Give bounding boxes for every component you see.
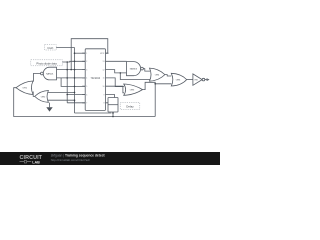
wire OR1 out to bottom bus	[14, 88, 156, 117]
wire pin1	[75, 52, 86, 54]
wire pin9 to delay box	[109, 95, 115, 98]
svg-text:9: 9	[104, 94, 105, 96]
svg-text:10: 10	[103, 86, 105, 88]
wire QD pin6	[67, 94, 85, 96]
svg-text:4: 4	[86, 78, 87, 80]
footer watermark bar	[0, 152, 220, 165]
ground	[46, 103, 52, 112]
svg-text:NAND3: NAND3	[130, 68, 138, 71]
wire OR2 out to OR1 lower input	[33, 92, 35, 97]
gate OR3	[124, 84, 143, 95]
svg-text:13: 13	[103, 61, 105, 63]
wire OR2 lower input	[48, 100, 75, 103]
wire riser from bus	[155, 84, 171, 117]
wire pin12 to NAND3 lower	[109, 70, 127, 73]
wire OR2 upper input	[48, 91, 75, 93]
gate NAND3	[127, 62, 144, 76]
gate INV1	[193, 74, 205, 85]
gate NAND1 (mirrored)	[41, 67, 57, 80]
svg-text:1: 1	[86, 53, 87, 55]
wire QA pin3	[57, 69, 86, 71]
svg-text:OR4: OR4	[155, 75, 160, 77]
svg-text:OR6: OR6	[176, 80, 181, 82]
wire QB pin4	[57, 77, 86, 79]
wire column1 lower	[66, 62, 68, 103]
wire pin7	[67, 102, 85, 104]
svg-text:7: 7	[86, 103, 87, 105]
gate OR2 (mirrored)	[35, 91, 49, 103]
wire top feedback loop	[71, 39, 108, 70]
wire CLK under IC	[75, 112, 112, 114]
wire pin10 to OR3 lower	[109, 86, 125, 93]
svg-text:skfguan | Training sequence de: skfguan | Training sequence detect	[51, 154, 106, 158]
svg-text:CLK: CLK	[47, 46, 54, 50]
svg-text:12: 12	[103, 69, 105, 71]
svg-text:6: 6	[86, 94, 87, 96]
wire output with flag	[205, 79, 208, 81]
wire QC jog to pin5	[61, 78, 85, 86]
wire NAND1 out to OR1	[33, 74, 40, 82]
node Photo diode data label	[31, 60, 63, 66]
node CLK label	[45, 45, 57, 51]
svg-text:LAB: LAB	[32, 160, 40, 164]
wire pin11 to OR3 upper	[109, 78, 125, 87]
wire OR4 out to OR6 upper	[165, 75, 171, 76]
pin stubs left	[82, 53, 85, 103]
wire CLK to column	[56, 47, 74, 49]
svg-text:3: 3	[86, 69, 87, 71]
svg-text:VCC: VCC	[100, 53, 105, 55]
svg-text:Delay: Delay	[126, 105, 134, 109]
svg-text:OR1: OR1	[23, 88, 28, 90]
delay element box	[108, 98, 118, 117]
svg-text:2: 2	[86, 61, 87, 63]
node Delay label	[120, 103, 140, 110]
svg-text:Photo diode data: Photo diode data	[36, 61, 57, 65]
svg-text:OR2: OR2	[41, 96, 46, 98]
gate OR4	[150, 68, 165, 81]
svg-text:NAND1: NAND1	[46, 73, 54, 76]
svg-text:http://circuitlab.com/c/nkr7ad: http://circuitlab.com/c/nkr7ad/	[51, 158, 90, 162]
pin stubs right	[106, 53, 109, 103]
gate OR6	[171, 73, 186, 86]
wire OR3 out loop to OR6 lower	[143, 82, 156, 89]
wire OR6 out to INV1	[187, 79, 193, 81]
wire column2 CLK vertical	[74, 48, 76, 114]
svg-text:74LS164: 74LS164	[91, 77, 101, 80]
svg-text:OR3: OR3	[130, 90, 135, 92]
wire branch to OR4 lower	[120, 73, 150, 80]
svg-text:5: 5	[86, 86, 87, 88]
wire photo data to IC pin 2	[62, 60, 85, 63]
svg-text:8: 8	[104, 103, 105, 105]
wire QH pin13 to NAND3 upper	[109, 60, 127, 62]
gate OR1 (mirrored)	[16, 81, 33, 95]
IC U1 74LS164	[82, 49, 108, 111]
svg-text:11: 11	[103, 78, 105, 80]
wire NAND3 out to OR4 upper	[143, 69, 150, 72]
junction dots	[74, 52, 76, 54]
